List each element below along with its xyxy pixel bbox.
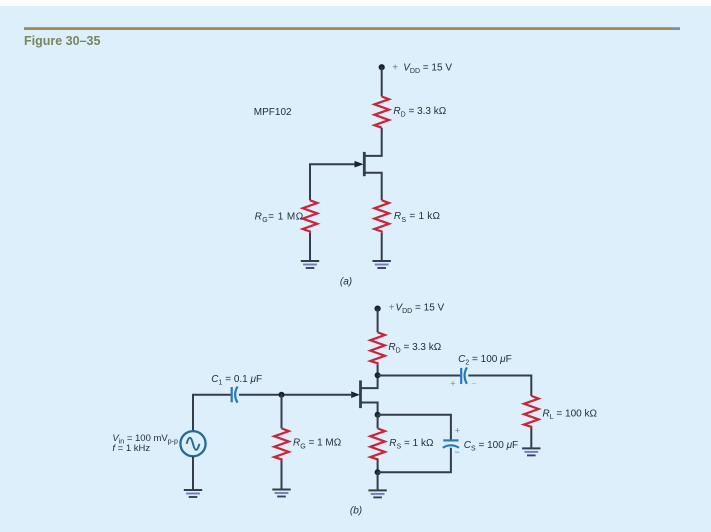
ground RS (a): [373, 261, 391, 268]
resistor RD (a): [374, 97, 389, 128]
capacitor CS (b): [443, 440, 459, 447]
wire V1 to ground (b): [192, 456, 194, 490]
wire source node to RS (b): [377, 415, 379, 429]
wire RD to drain (a): [365, 128, 382, 156]
wire RG to ground (a): [309, 233, 311, 261]
wire C2 to RL (b): [468, 376, 531, 396]
wire RG to ground (b): [281, 461, 283, 490]
wire drain node to C2 (b): [378, 375, 461, 377]
source V1 sine generator: [180, 431, 205, 456]
figure header rule: [24, 27, 680, 30]
wire Vin corner to C1 (b): [193, 395, 231, 431]
resistor RS (b): [370, 428, 385, 459]
svg-text:MPF102: MPF102: [254, 107, 292, 118]
ground RL (b): [522, 448, 540, 455]
wire RD to drain (b): [361, 364, 378, 388]
capacitor C1 (b): [232, 387, 238, 403]
wire RS to ground (a): [381, 233, 383, 261]
svg-text:+: +: [455, 426, 460, 436]
wire VDD to RD (b): [377, 309, 379, 333]
capacitor C2 (b): [461, 367, 467, 384]
node VDD (a): [379, 64, 385, 70]
svg-text:−: −: [454, 447, 459, 457]
svg-text:RS = 1 kΩ: RS = 1 kΩ: [389, 438, 434, 451]
node VDD (b): [375, 306, 381, 312]
wire gate to RG (a): [310, 164, 355, 200]
resistor RS (a): [374, 200, 389, 233]
wire source node to CS (b): [378, 415, 451, 440]
resistor RL (b): [524, 396, 539, 428]
resistor RG (b): [274, 428, 289, 460]
node gate junction (b): [279, 392, 285, 398]
svg-text:Figure 30–35: Figure 30–35: [24, 34, 100, 48]
ground RG (b): [272, 490, 290, 497]
ground RG (a): [301, 261, 319, 268]
svg-text:−: −: [471, 379, 476, 389]
wire CS to bottom node (b): [378, 448, 451, 473]
svg-text:+: +: [450, 378, 455, 388]
wire RL to ground (b): [530, 428, 532, 448]
svg-text:(a): (a): [340, 277, 352, 288]
svg-text:RG= 1 MΩ: RG= 1 MΩ: [255, 211, 304, 224]
transistor Q1 MPF102 (a): [355, 152, 382, 200]
svg-text:(b): (b): [350, 506, 362, 517]
svg-text:RS = 1 kΩ: RS = 1 kΩ: [394, 211, 441, 224]
resistor RG (a): [303, 200, 318, 233]
wire C1 to gate (b): [239, 394, 353, 396]
wire RS to bottom node (b): [377, 460, 379, 473]
node drain junction (b): [375, 372, 381, 378]
wire bottom node to ground (b): [377, 472, 379, 490]
node source junction top (b): [375, 412, 381, 418]
wire VDD to RD (a): [381, 67, 383, 96]
node source junction bottom (b): [375, 469, 381, 475]
resistor RD (b): [370, 332, 385, 364]
svg-text:f = 1 kHz: f = 1 kHz: [112, 443, 150, 454]
ground V1 (b): [184, 490, 202, 497]
wire gate node to RG (b): [281, 395, 283, 429]
svg-text:+VDD = 15 V: +VDD = 15 V: [389, 303, 445, 316]
ground RS (b): [368, 490, 386, 497]
transistor Q1 (b): [351, 380, 377, 414]
